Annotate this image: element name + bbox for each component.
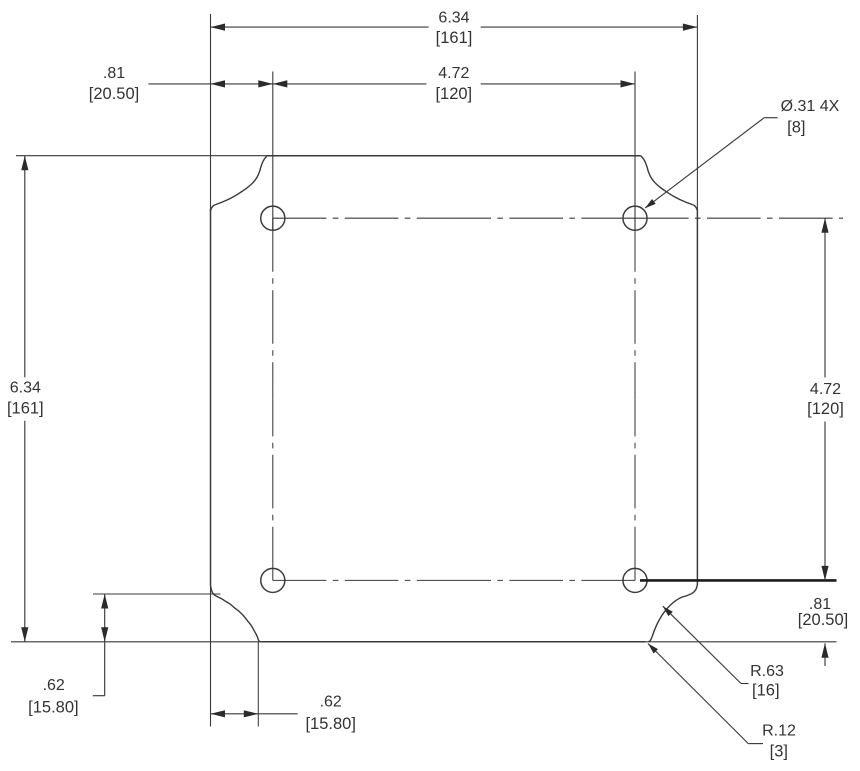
svg-text:.62: .62 xyxy=(320,693,342,710)
svg-text:[20.50]: [20.50] xyxy=(89,85,139,103)
svg-text:[20.50]: [20.50] xyxy=(798,611,848,629)
svg-text:[161]: [161] xyxy=(436,29,473,47)
svg-text:Ø.31 4X: Ø.31 4X xyxy=(781,98,840,115)
svg-text:6.34: 6.34 xyxy=(438,9,469,26)
svg-text:[16]: [16] xyxy=(752,682,780,700)
svg-text:[15.80]: [15.80] xyxy=(305,715,355,733)
svg-text:[8]: [8] xyxy=(787,119,805,137)
svg-text:[15.80]: [15.80] xyxy=(28,698,78,716)
svg-text:[3]: [3] xyxy=(770,742,788,760)
svg-text:[161]: [161] xyxy=(7,400,44,418)
svg-text:6.34: 6.34 xyxy=(10,380,41,397)
svg-text:R.63: R.63 xyxy=(750,663,784,680)
svg-text:[120]: [120] xyxy=(807,400,844,418)
svg-text:[120]: [120] xyxy=(435,85,472,103)
svg-text:.62: .62 xyxy=(43,677,65,694)
svg-text:.81: .81 xyxy=(103,65,125,82)
svg-text:4.72: 4.72 xyxy=(438,65,469,82)
svg-text:R.12: R.12 xyxy=(762,723,796,740)
svg-text:4.72: 4.72 xyxy=(810,381,841,398)
